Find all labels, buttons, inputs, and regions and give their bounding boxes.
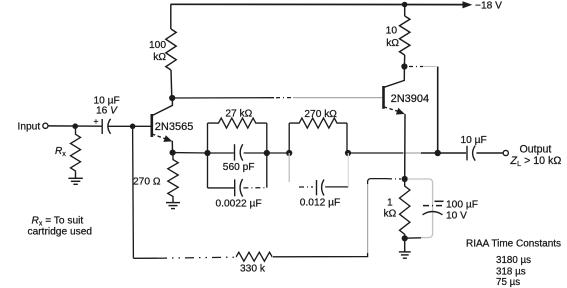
wire -18V supply rail <box>171 3 464 5</box>
capacitor 100uF plate dash-dot <box>423 205 443 207</box>
wire feedback top corner <box>368 179 388 184</box>
capacitor 10uF input, straight plate <box>101 119 103 134</box>
wire feedback left vertical <box>132 126 135 258</box>
ground below Rx <box>68 173 82 184</box>
wire collector Q2 to output column (dashed) <box>409 66 423 68</box>
node collector Q1 <box>169 95 175 101</box>
wire network2 right vertical top <box>346 123 348 153</box>
wire input to coupling cap <box>48 125 102 127</box>
wire cap to output terminal <box>476 152 503 154</box>
wire feedback to 1k top dash-dot <box>388 178 401 180</box>
wire rail to 10k <box>404 5 406 17</box>
wire feedback bottom left <box>133 257 158 259</box>
node collector Q2 <box>401 63 407 69</box>
svg-text:10 µF: 10 µF <box>461 135 487 146</box>
resistor 1 kOhm <box>400 179 410 238</box>
resistor 10 kOhm <box>400 16 410 55</box>
node network1 left <box>204 150 210 156</box>
wire emitter Q1 to network1 <box>173 152 208 154</box>
wire cap to Q1 base <box>108 125 151 127</box>
capacitor 100uF straight plate <box>435 200 444 202</box>
svg-text:318 µs: 318 µs <box>496 267 526 278</box>
svg-text:kΩ: kΩ <box>384 209 397 220</box>
node 1k bottom <box>402 235 408 241</box>
svg-text:Output: Output <box>520 144 552 156</box>
capacitor 0.0022 uF straight plate <box>234 179 236 196</box>
wire 100uF loop bottom (faded) <box>421 199 433 238</box>
svg-text:Rx: Rx <box>55 146 66 158</box>
junction input / Rx <box>72 123 78 129</box>
svg-text:2N3904: 2N3904 <box>391 93 430 105</box>
node output junction <box>435 150 441 156</box>
svg-text:Input: Input <box>18 122 41 133</box>
wire feedback right vertical (faded) <box>367 184 369 253</box>
junction rail/10k <box>402 2 408 8</box>
wire network1 bottom left <box>208 187 235 189</box>
svg-text:100: 100 <box>149 40 166 51</box>
wire output column vertical <box>437 67 439 154</box>
svg-text:kΩ: kΩ <box>153 52 166 63</box>
svg-text:330 k: 330 k <box>240 264 266 275</box>
wire network1 middle left <box>208 152 234 154</box>
transistor Q1 emitter lead <box>152 134 167 139</box>
svg-text:100 µF: 100 µF <box>446 200 478 211</box>
wire 1k bottom to bypass <box>405 237 421 239</box>
svg-text:3180 µs: 3180 µs <box>496 255 531 266</box>
wire feedback bottom right <box>273 253 368 257</box>
capacitor 560 pF curved plate <box>240 144 243 160</box>
svg-text:560 pF: 560 pF <box>223 162 255 173</box>
resistor 330 k <box>236 252 273 261</box>
capacitor 0.012 uF curved plate <box>322 180 324 196</box>
svg-text:27 kΩ: 27 kΩ <box>225 109 252 120</box>
resistor 100 kOhm <box>166 29 176 70</box>
transistor Q2 emitter arrowhead <box>396 108 405 115</box>
wire network1 middle right <box>244 152 267 154</box>
wire network2 bottom right <box>325 186 348 188</box>
node network2 right <box>345 150 351 156</box>
transistor Q2 emitter lead <box>384 107 399 112</box>
svg-text:75 µs: 75 µs <box>496 277 520 288</box>
resistor 270 Ohm <box>168 153 178 200</box>
svg-text:RIAA Time Constants: RIAA Time Constants <box>466 239 561 250</box>
wire emitter Q2 down <box>404 114 406 179</box>
svg-text:+: + <box>94 116 99 126</box>
terminal input circle <box>43 123 48 128</box>
capacitor 560 pF straight plate <box>234 144 236 160</box>
wire Q1-Q2 coupling faded right part <box>293 97 383 99</box>
capacitor 100uF curved plate <box>423 212 443 215</box>
transistor Q2 2N3904 base bar <box>382 86 385 109</box>
transistor Q1 2N3565 base bar <box>151 114 154 137</box>
capacitor 0.0022 uF curved plate <box>240 179 243 197</box>
svg-text:270 kΩ: 270 kΩ <box>304 109 337 120</box>
svg-text:cartridge used: cartridge used <box>28 227 93 238</box>
svg-text:0.012 µF: 0.012 µF <box>300 197 340 208</box>
svg-text:Rx = To suit: Rx = To suit <box>32 215 84 227</box>
svg-text:270 Ω: 270 Ω <box>133 177 161 188</box>
resistor 270 kOhm <box>289 118 347 128</box>
wire network2 right vertical bottom (faded) <box>347 153 349 187</box>
transistor Q1 emitter arrowhead <box>163 135 172 142</box>
wire network2 to output node <box>348 152 403 154</box>
wire network1 right vertical <box>266 123 268 188</box>
svg-text:10 V: 10 V <box>446 211 467 222</box>
capacitor 0.012 uF straight plate <box>316 180 318 195</box>
node network1 right <box>264 150 270 156</box>
svg-text:1: 1 <box>387 198 393 209</box>
wire feedback bottom dash-dot <box>158 257 235 258</box>
arrowhead -18V rail <box>463 1 473 8</box>
transistor Q2 collector lead <box>384 67 405 88</box>
wire rail to 100k <box>170 4 172 29</box>
wire 10k to collector node Q2 <box>403 55 405 67</box>
wire network2 left vertical top <box>288 123 290 153</box>
svg-text:−18 V: −18 V <box>475 0 502 11</box>
ground below 1k <box>399 238 411 258</box>
svg-text:2N3565: 2N3565 <box>155 121 194 133</box>
wire 100k to collector node <box>170 70 173 98</box>
svg-text:10: 10 <box>386 26 398 37</box>
svg-text:16 V: 16 V <box>96 106 118 117</box>
ground below 270 Ohm <box>166 200 180 209</box>
svg-text:0.0022 µF: 0.0022 µF <box>216 199 262 210</box>
svg-text:ZL > 10 kΩ: ZL > 10 kΩ <box>510 155 562 168</box>
wire network1 bottom right dash-dot <box>243 187 266 189</box>
svg-text:kΩ: kΩ <box>386 38 399 49</box>
wire output node to cap <box>438 152 466 154</box>
terminal output circle <box>503 150 508 155</box>
wire network2 bottom dash-dot left <box>299 186 313 188</box>
resistor Rx <box>71 126 81 173</box>
junction base Q1 / feedback <box>130 124 136 130</box>
capacitor 10uF output straight plate <box>466 146 468 161</box>
wire network1 to network2 <box>267 152 289 154</box>
resistor 27 kOhm <box>208 118 267 128</box>
transistor Q1 collector lead <box>152 98 172 116</box>
capacitor 10uF input, curved plate <box>108 119 111 134</box>
wire Q1-Q2 coupling dashed middle part <box>276 97 292 99</box>
node network2 left <box>286 150 292 156</box>
node emitter column / 1k top <box>402 176 408 182</box>
wire Q1 collector to Q2 base (left solid part) <box>172 97 274 99</box>
node emitter Q1 <box>170 150 176 156</box>
wire network1 left vertical <box>207 123 209 188</box>
capacitor 10uF output curved plate <box>473 146 476 161</box>
wire network2 left vertical bottom (faded) <box>288 153 290 182</box>
wire 100uF loop top (faded) <box>408 179 433 199</box>
